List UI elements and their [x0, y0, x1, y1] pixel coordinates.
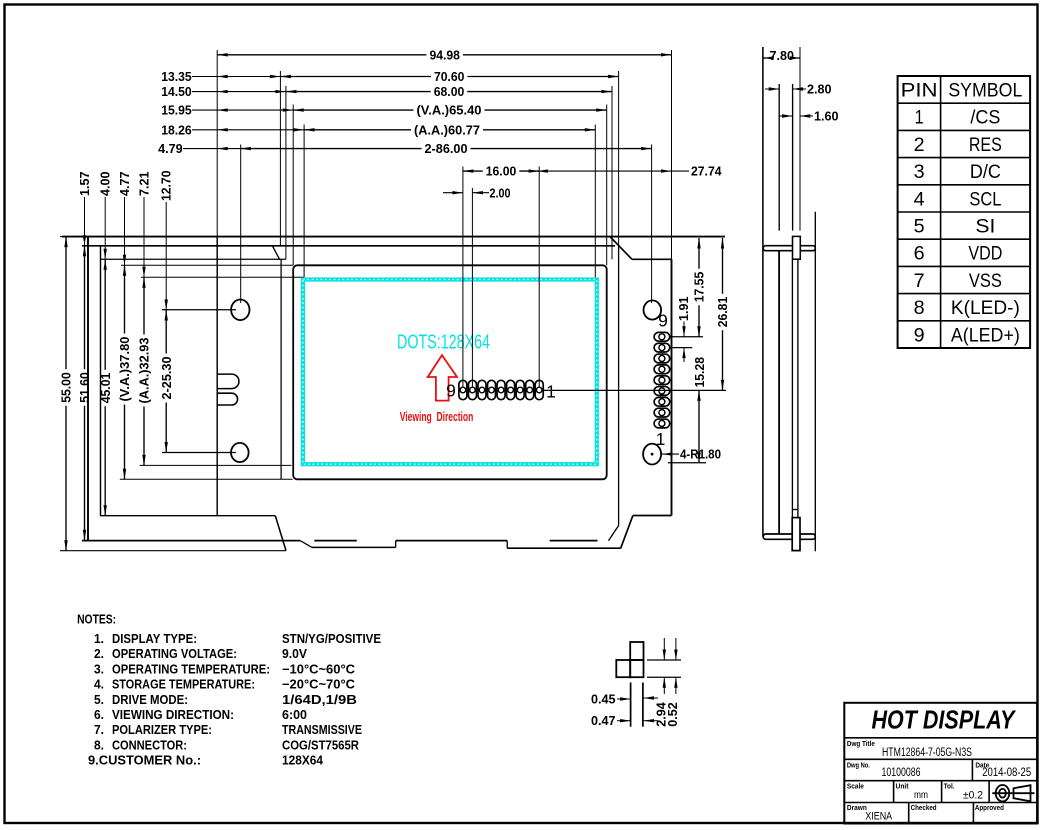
pin hole row (9..1)	[459, 380, 467, 399]
svg-text:SYMBOL: SYMBOL	[948, 81, 1022, 102]
slot tab upper	[217, 374, 239, 389]
svg-text:1: 1	[915, 108, 924, 129]
VA bottom ext line	[120, 478, 293, 480]
svg-text:−10°C~60°C: −10°C~60°C	[282, 662, 355, 676]
svg-text:Viewing Direction: Viewing Direction	[400, 410, 474, 424]
leader 1.57	[84, 197, 86, 246]
extension line x=537.3 pin1	[538, 167, 540, 388]
svg-text:POLARIZER TYPE:: POLARIZER TYPE:	[112, 723, 212, 737]
svg-text:Unit: Unit	[896, 782, 909, 791]
svg-text:VDD: VDD	[968, 244, 1002, 265]
svg-text:13.35: 13.35	[161, 70, 192, 84]
mounting hole bottom-right	[643, 444, 661, 465]
extension line x=217 (top)	[216, 50, 218, 237]
svg-text:(A.A.)32.93: (A.A.)32.93	[138, 338, 152, 404]
bezel jog diagonal	[272, 246, 279, 260]
extension line x=651.6 hole	[651, 145, 653, 304]
svg-text:5: 5	[914, 217, 925, 238]
extension line x=472.8 pin8	[471, 188, 473, 387]
dimension 51.60	[84, 246, 86, 369]
svg-text:OPERATING TEMPERATURE:: OPERATING TEMPERATURE:	[112, 662, 270, 676]
svg-text:VIEWING DIRECTION:: VIEWING DIRECTION:	[112, 708, 234, 722]
svg-text:16.00: 16.00	[486, 165, 517, 179]
leader 7.21	[143, 197, 145, 277]
dimension 17.55	[698, 238, 700, 269]
AA bottom ext line	[140, 464, 292, 466]
svg-text:12.70: 12.70	[160, 171, 174, 202]
svg-text:4: 4	[914, 189, 925, 210]
svg-text:DOTS:128X64: DOTS:128X64	[397, 332, 490, 354]
mounting hole top-right	[644, 300, 662, 319]
svg-text:D/C: D/C	[970, 162, 1001, 183]
AA top ext line	[141, 276, 304, 278]
dimension 1.91	[683, 322, 685, 337]
pin symbol table	[898, 76, 1031, 348]
svg-text:(V.A.)37.80: (V.A.)37.80	[118, 337, 132, 402]
svg-text:Checked: Checked	[911, 803, 937, 812]
svg-text:1: 1	[546, 382, 556, 402]
svg-text:HOT DISPLAY: HOT DISPLAY	[872, 705, 1017, 735]
svg-text:2-86.00: 2-86.00	[425, 142, 468, 156]
svg-text:0.45: 0.45	[591, 692, 616, 706]
dimension 27.74	[537, 170, 689, 172]
pin cross-section detail	[630, 642, 643, 660]
svg-text:XIENA: XIENA	[865, 811, 893, 823]
dimension 1.60	[779, 115, 793, 117]
svg-text:6.: 6.	[94, 708, 104, 722]
svg-text:OPERATING VOLTAGE:: OPERATING VOLTAGE:	[112, 647, 237, 661]
svg-text:Dwg No.: Dwg No.	[847, 760, 870, 769]
svg-text:CONNECTOR:: CONNECTOR:	[112, 738, 187, 752]
svg-text:1.57: 1.57	[78, 172, 92, 197]
svg-text:DRIVE MODE:: DRIVE MODE:	[112, 693, 188, 707]
extension line x=606.7	[606, 105, 608, 266]
right pin column (9..1)	[654, 332, 670, 341]
svg-text:Approved: Approved	[975, 803, 1004, 812]
svg-text:HTM12864-7-05G-N3S: HTM12864-7-05G-N3S	[882, 747, 972, 759]
side view body line (glass edge)	[778, 251, 780, 534]
viewing direction red arrow	[428, 355, 457, 401]
dimension 45.01	[104, 259, 106, 370]
svg-text:94.98: 94.98	[429, 48, 460, 62]
svg-text:3.: 3.	[94, 662, 104, 676]
svg-text:55.00: 55.00	[60, 372, 74, 403]
svg-text:7: 7	[914, 271, 925, 292]
svg-text:1.: 1.	[94, 632, 104, 646]
dimension (V.A.)65.40 with 15.95	[293, 109, 413, 111]
side view bottom bar	[763, 534, 815, 539]
svg-text:−20°C~70°C: −20°C~70°C	[282, 678, 355, 692]
polarizer left edge	[280, 259, 282, 479]
svg-text:26.81: 26.81	[716, 297, 730, 328]
left ext line y=236.6	[60, 236, 88, 238]
svg-text:4.77: 4.77	[118, 172, 132, 197]
extension line x=304.1	[303, 125, 305, 278]
svg-text:18.26: 18.26	[161, 123, 192, 137]
svg-text:14.50: 14.50	[161, 85, 192, 99]
dimension 70.60 with 13.35	[280, 76, 431, 78]
side view pin upper line b	[792, 84, 794, 231]
svg-text:PIN: PIN	[901, 81, 938, 102]
4-R1.80 leader	[662, 453, 679, 455]
svg-text:RES: RES	[969, 135, 1002, 156]
extension line x=463.2 pin9	[462, 167, 464, 388]
svg-text:5.: 5.	[94, 693, 104, 707]
glass top edge extension	[101, 258, 286, 260]
svg-text:2.80: 2.80	[807, 83, 832, 97]
svg-text:15.95: 15.95	[161, 104, 192, 118]
svg-text:NOTES:: NOTES:	[77, 613, 116, 627]
svg-text:6: 6	[914, 244, 925, 265]
glass bottom edge segment	[100, 515, 275, 517]
bezel opening top edge	[82, 245, 615, 247]
svg-text:27.74: 27.74	[691, 165, 722, 179]
dimension (A.A.)60.77 with 18.26	[304, 129, 411, 131]
left inner rect right edge	[216, 237, 218, 516]
extension line x=240.7 hole	[240, 145, 242, 304]
dimension 68.00 with 14.50	[286, 91, 431, 93]
side view right ext/pin edge	[799, 47, 801, 231]
svg-text:7.80: 7.80	[770, 49, 795, 63]
side view top bar	[763, 246, 815, 251]
svg-text:4.79: 4.79	[158, 142, 183, 156]
dimension 2.00	[443, 192, 463, 194]
dimension 2-25.30	[165, 310, 167, 354]
svg-text:VSS: VSS	[969, 271, 1002, 292]
hole ext line y=310	[162, 309, 236, 311]
svg-text:TRANSMISSIVE: TRANSMISSIVE	[282, 723, 362, 737]
leader 4.77	[124, 197, 126, 265]
svg-text:STORAGE TEMPERATURE:: STORAGE TEMPERATURE:	[112, 678, 255, 692]
svg-text:7.21: 7.21	[138, 172, 152, 197]
ext tick y=462.7	[668, 462, 706, 464]
side view pin rect bottom	[792, 518, 800, 551]
svg-text:1/64D,1/9B: 1/64D,1/9B	[282, 693, 357, 707]
side view pin line right	[797, 259, 799, 517]
LCD panel outline (V.A.)	[293, 265, 607, 479]
extension line x=618.6 top	[618, 71, 620, 246]
svg-text:17.55: 17.55	[693, 272, 707, 303]
left inner rect left edge	[100, 246, 102, 516]
svg-text:4.: 4.	[94, 678, 104, 692]
side view right edge	[814, 212, 816, 552]
side view pin tick	[792, 509, 798, 511]
svg-text:7.: 7.	[94, 723, 104, 737]
svg-text:2.00: 2.00	[490, 186, 511, 200]
svg-text:2.: 2.	[94, 647, 104, 661]
svg-text:68.00: 68.00	[434, 85, 465, 99]
extension line x=293.2	[292, 105, 294, 266]
svg-text:1.91: 1.91	[677, 297, 691, 322]
ext tick y=336.8	[669, 336, 703, 338]
VA top ext line	[121, 264, 293, 266]
module outer outline (front view)	[87, 237, 89, 541]
svg-text:A(LED+): A(LED+)	[951, 325, 1020, 346]
title block	[844, 703, 1037, 824]
svg-text:8: 8	[914, 298, 925, 319]
dimension 26.81	[722, 238, 724, 294]
leader 4.00	[104, 197, 106, 259]
extension line x=285.9	[285, 86, 287, 259]
svg-text:DISPLAY TYPE:: DISPLAY TYPE:	[112, 632, 197, 646]
svg-text:2-25.30: 2-25.30	[160, 357, 174, 400]
side view left edge	[762, 47, 764, 537]
svg-text:Tol.: Tol.	[944, 782, 955, 791]
svg-text:4.00: 4.00	[99, 172, 113, 197]
dimension (A.A.)32.93	[143, 277, 145, 334]
mounting hole top-left	[231, 300, 249, 321]
dimension 16.00	[463, 170, 483, 172]
slot tab lower	[217, 393, 237, 405]
svg-text:9.CUSTOMER No.:: 9.CUSTOMER No.:	[88, 754, 201, 768]
svg-text:9: 9	[914, 325, 925, 346]
dimension 15.28	[698, 390, 700, 462]
ext tick y=347.6	[672, 347, 693, 349]
svg-text:STN/YG/POSITIVE: STN/YG/POSITIVE	[282, 632, 381, 646]
mounting hole bottom-left	[231, 443, 249, 462]
svg-text:mm: mm	[914, 789, 928, 801]
svg-text:6:00: 6:00	[282, 708, 307, 722]
svg-text:COG/ST7565R: COG/ST7565R	[282, 738, 359, 752]
pin row reference line	[543, 389, 726, 391]
dimension (V.A.)37.80	[124, 265, 126, 333]
extension line x=595.3	[594, 125, 596, 278]
svg-text:15.28: 15.28	[693, 357, 707, 388]
svg-text:K(LED-): K(LED-)	[951, 298, 1020, 319]
side view pin line left	[791, 259, 793, 517]
svg-text:10100086: 10100086	[882, 767, 921, 779]
svg-text:0.52: 0.52	[666, 702, 680, 727]
side view pin upper line a	[778, 84, 780, 231]
svg-text:3: 3	[914, 162, 925, 183]
svg-text:51.60: 51.60	[78, 372, 92, 403]
svg-text:(A.A.)60.77: (A.A.)60.77	[414, 123, 480, 137]
dimension 94.98	[217, 54, 426, 56]
svg-text:/CS: /CS	[970, 108, 1000, 129]
svg-text:2014-08-25: 2014-08-25	[982, 767, 1031, 779]
svg-text:128X64: 128X64	[282, 754, 323, 768]
svg-text:SCL: SCL	[969, 189, 1001, 210]
side view pin rect top	[793, 236, 801, 259]
hole ext line y=452.5	[162, 452, 236, 454]
svg-text:45.01: 45.01	[99, 373, 113, 404]
svg-text:Dwg Title: Dwg Title	[847, 739, 875, 748]
module bottom tabs	[396, 540, 508, 542]
svg-text:0.47: 0.47	[591, 714, 616, 728]
extension line x=612	[611, 86, 613, 259]
svg-text:70.60: 70.60	[434, 70, 465, 84]
svg-text:9.0V: 9.0V	[282, 647, 308, 661]
svg-text:SI: SI	[975, 217, 995, 238]
svg-text:9: 9	[658, 310, 668, 330]
svg-text:Scale: Scale	[847, 782, 864, 791]
svg-text:9: 9	[446, 380, 456, 400]
svg-text:8.: 8.	[94, 738, 104, 752]
svg-text:(V.A.)65.40: (V.A.)65.40	[417, 104, 482, 118]
dimension 2.80	[765, 88, 779, 90]
leader 12.70	[165, 202, 167, 310]
active area cyan rect	[303, 280, 597, 465]
extension line x=280.4	[279, 71, 281, 246]
svg-text:4-R1.80: 4-R1.80	[680, 448, 721, 462]
bezel opening right edge	[618, 246, 620, 526]
svg-text:2: 2	[914, 135, 925, 156]
dimension 2-86.00 with 4.79	[240, 148, 421, 150]
svg-text:±0.2: ±0.2	[963, 789, 983, 801]
dimension 55.00	[65, 237, 67, 370]
svg-text:1.60: 1.60	[814, 110, 839, 124]
extension line x=671.5 right edge	[671, 50, 673, 259]
dimension 7.80	[763, 57, 766, 59]
